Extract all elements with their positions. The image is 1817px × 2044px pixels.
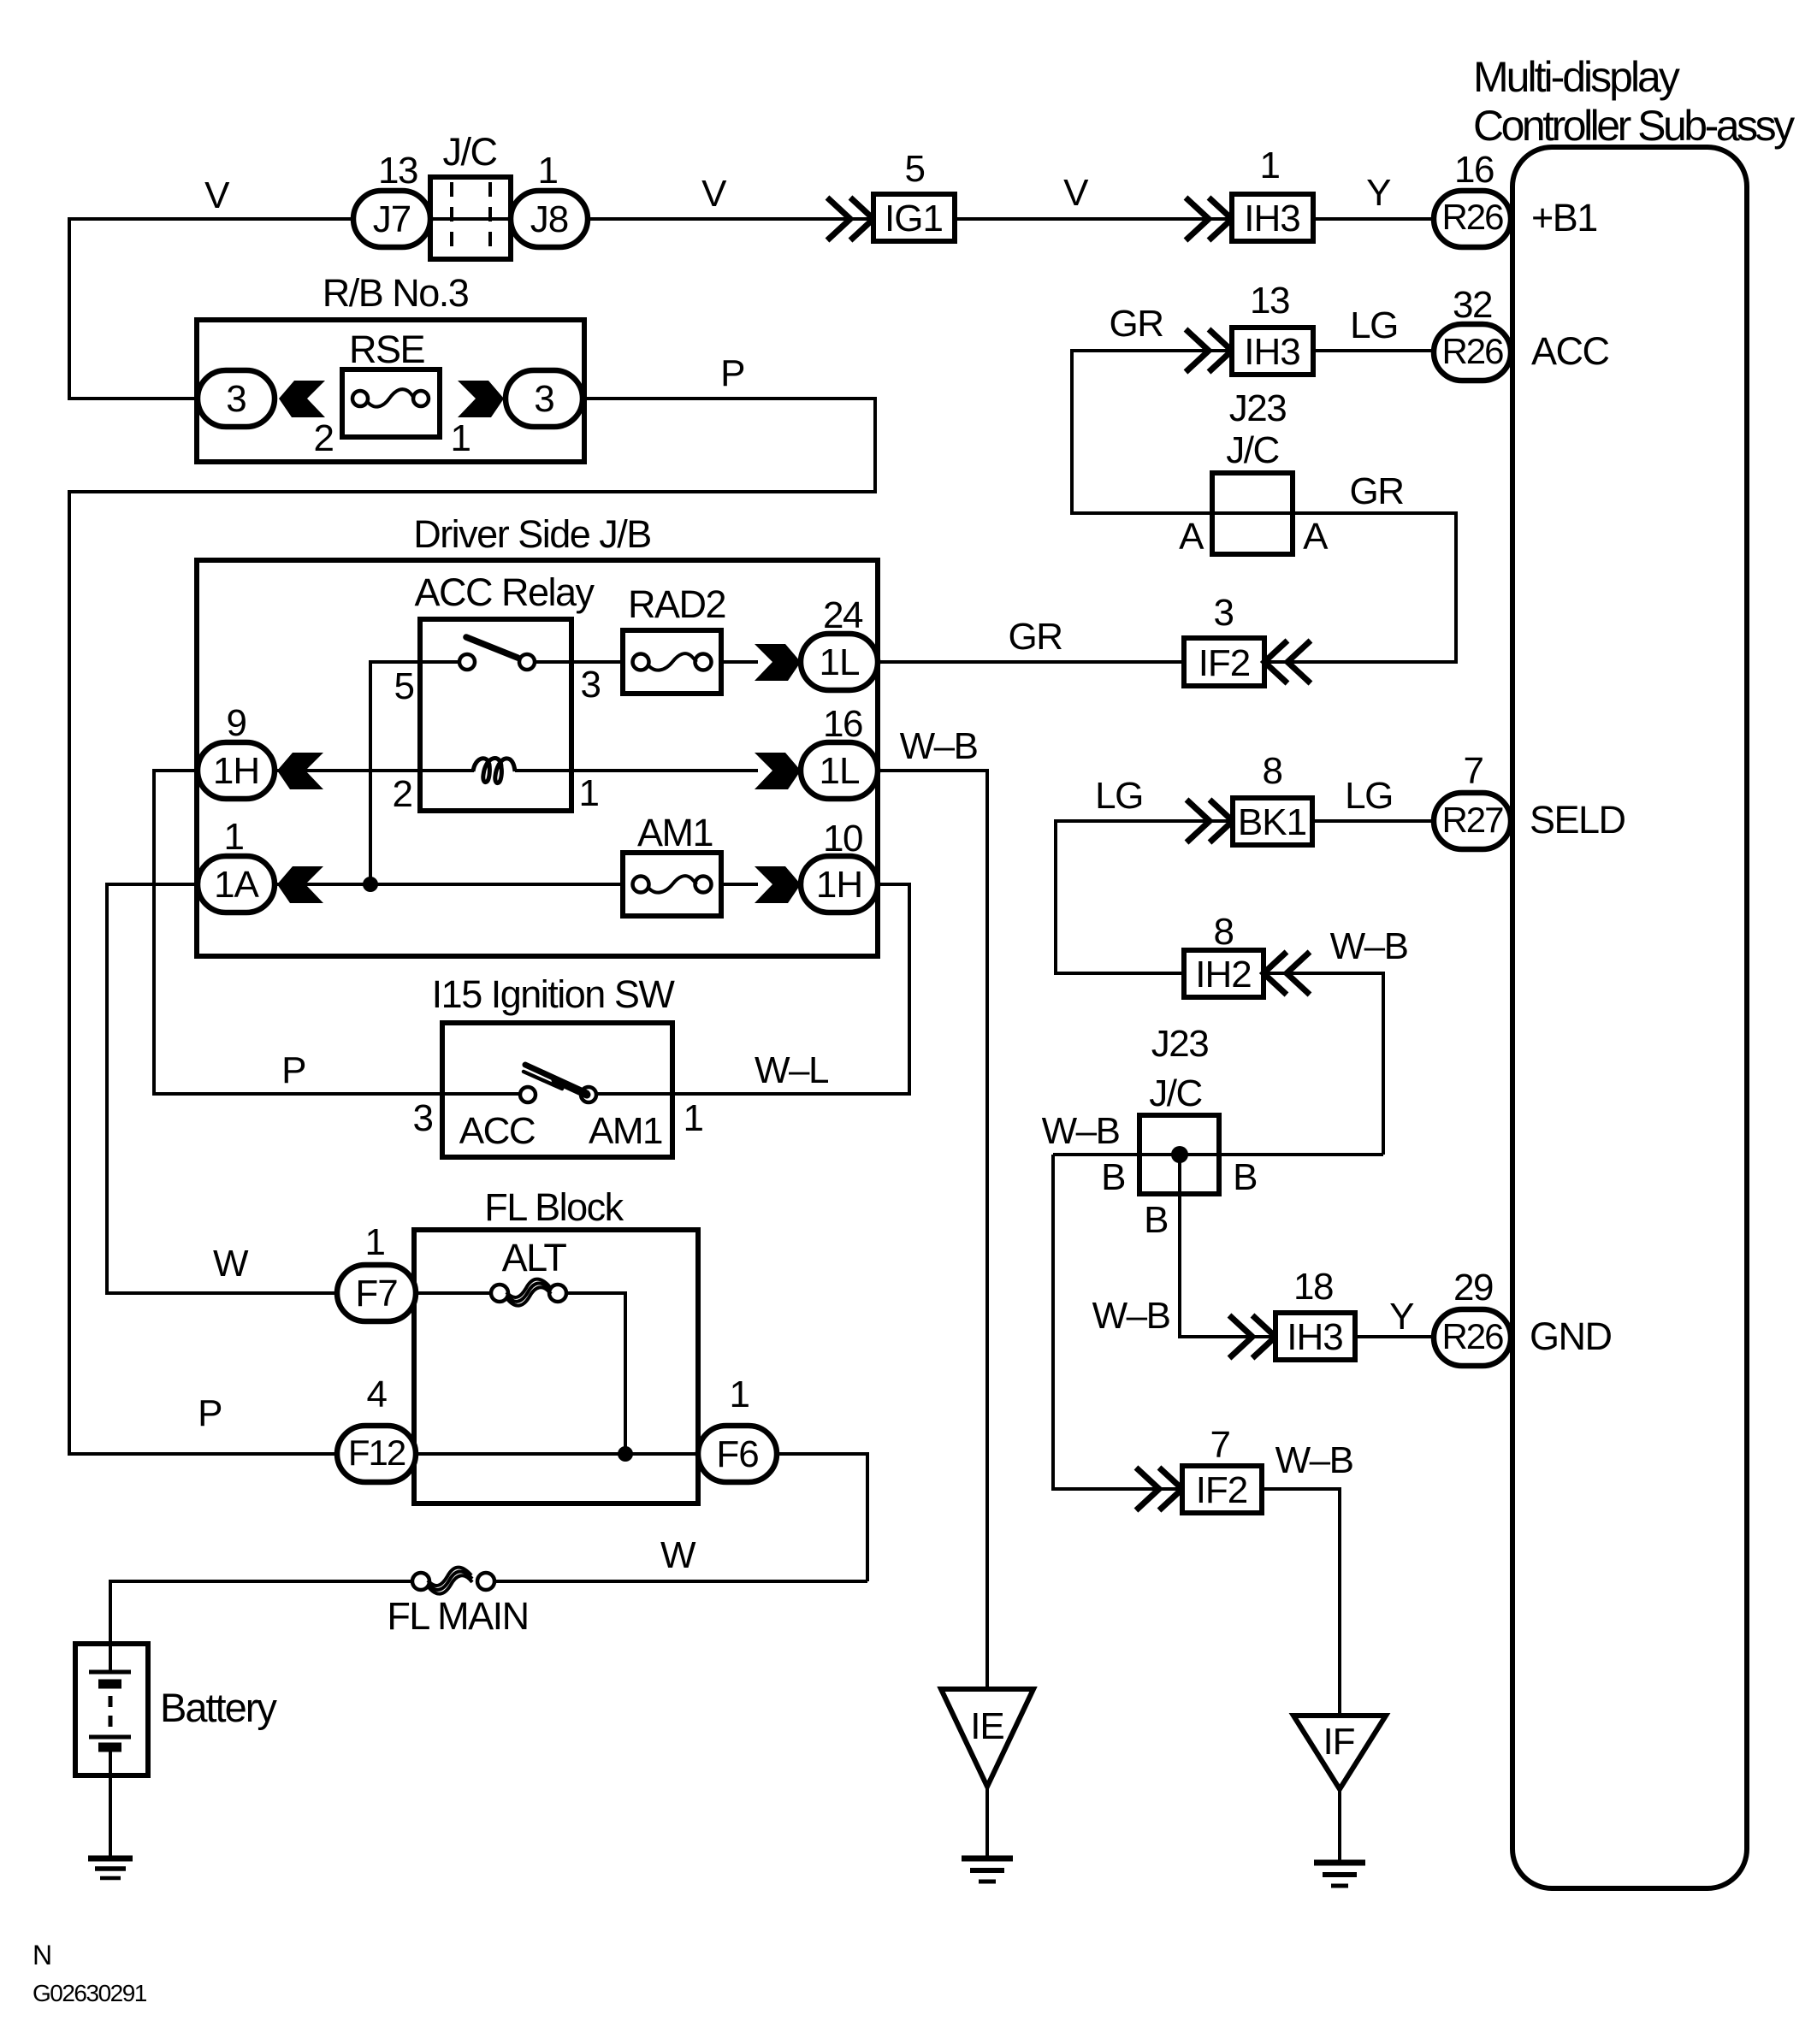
svg-text:29: 29 — [1453, 1267, 1493, 1309]
junction node on 1A row — [363, 877, 378, 892]
junction connector J23 J/C box (upper) — [1212, 473, 1293, 554]
svg-text:ACC Relay: ACC Relay — [414, 570, 595, 614]
wire IE triangle to ground — [985, 1787, 989, 1858]
junction connector J/C (top) — [430, 130, 511, 259]
connector pin R26 (ACC) — [1434, 324, 1511, 381]
ground (IE) — [962, 1858, 1013, 1882]
wire W-B: 1L(16) right and down to IE ground triangle — [878, 771, 987, 1689]
svg-text:G02630291: G02630291 — [33, 1980, 147, 2006]
svg-text:J/C: J/C — [1149, 1072, 1202, 1114]
svg-text:IH3: IH3 — [1287, 1316, 1342, 1358]
svg-text:AM1: AM1 — [589, 1110, 662, 1152]
svg-text:V: V — [701, 173, 727, 215]
svg-text:B: B — [1144, 1199, 1168, 1241]
svg-text:Y: Y — [1389, 1296, 1414, 1338]
svg-text:IG1: IG1 — [885, 198, 943, 239]
wire B: J/C junction dot down, right to IH3(18) chevrons — [1180, 1155, 1275, 1337]
connector BK1 — [1233, 798, 1312, 845]
R/B No.3 box — [197, 320, 584, 462]
connector IF2 (pin 7) — [1182, 1466, 1262, 1513]
connector pin F12 — [337, 1426, 416, 1482]
wire V net: RSE pin2 oval up and right to J7/J8 junction, on to IG1 chevrons — [69, 219, 873, 399]
svg-text:R26: R26 — [1441, 1316, 1503, 1356]
svg-text:32: 32 — [1453, 284, 1492, 326]
battery — [75, 1644, 148, 1775]
chevron arrows into IH3 pin 13 — [1186, 329, 1232, 372]
relay switch blade — [466, 637, 518, 658]
svg-text:GND: GND — [1530, 1314, 1612, 1358]
svg-text:ALT: ALT — [502, 1236, 567, 1279]
svg-text:BK1: BK1 — [1238, 801, 1306, 843]
svg-text:W–B: W–B — [1092, 1295, 1170, 1337]
svg-text:R26: R26 — [1441, 331, 1503, 371]
Multi-display Controller Sub-assy box U1 — [1512, 147, 1747, 1888]
svg-text:J23: J23 — [1229, 387, 1286, 429]
connector pin 3 (right) — [506, 370, 583, 427]
svg-text:4: 4 — [367, 1373, 388, 1415]
svg-text:W–B: W–B — [1330, 925, 1408, 967]
svg-text:W–L: W–L — [755, 1049, 829, 1091]
svg-text:IF2: IF2 — [1199, 642, 1251, 684]
svg-text:B: B — [1101, 1156, 1125, 1198]
ignition switch blade — [525, 1065, 587, 1093]
svg-text:8: 8 — [1263, 750, 1282, 792]
svg-text:1L: 1L — [820, 750, 860, 792]
svg-text:16: 16 — [823, 703, 862, 745]
ground (battery) — [88, 1858, 133, 1878]
svg-text:1: 1 — [224, 816, 244, 858]
chevron arrows into IF2 pin 3 — [1264, 641, 1311, 683]
arrow into 1H (10) — [755, 866, 801, 903]
fusible link ALT — [491, 1279, 566, 1306]
connector pin 1H (10) — [801, 856, 878, 913]
svg-text:Battery: Battery — [160, 1685, 277, 1730]
svg-text:ACC: ACC — [459, 1110, 536, 1152]
relay ACC box — [420, 619, 571, 811]
svg-text:1: 1 — [451, 417, 471, 459]
svg-text:P: P — [198, 1392, 222, 1434]
switch I15 box — [442, 1023, 672, 1157]
arrow into 1A (1) — [277, 866, 323, 903]
svg-text:A: A — [1303, 516, 1329, 558]
svg-text:13: 13 — [1250, 280, 1289, 322]
svg-text:18: 18 — [1293, 1266, 1333, 1308]
svg-text:+B1: +B1 — [1531, 196, 1597, 239]
svg-text:I15 Ignition SW: I15 Ignition SW — [432, 972, 676, 1016]
connector J8 — [511, 191, 588, 247]
svg-text:FL Block: FL Block — [484, 1185, 624, 1229]
relay switch contacts — [459, 637, 535, 670]
wire P net: RSE pin1 oval right, down, across, down left side to F12 — [69, 399, 875, 1454]
connector IG1 — [873, 194, 955, 241]
svg-text:IH3: IH3 — [1244, 331, 1299, 373]
wire relay coil row: 1H(9) to 1L(16) — [275, 769, 758, 772]
wire GR: 1L(24) to IF2(3) — [878, 660, 1184, 664]
svg-text:3: 3 — [1214, 592, 1234, 634]
svg-text:V: V — [1063, 172, 1089, 214]
svg-text:R26: R26 — [1441, 197, 1503, 237]
svg-text:J8: J8 — [530, 198, 568, 240]
svg-text:R/B No.3: R/B No.3 — [323, 271, 469, 315]
svg-text:2: 2 — [393, 773, 412, 815]
wire LG net: BK1 chevrons left, down to IH2 box — [1056, 821, 1233, 973]
svg-text:W–B: W–B — [1275, 1439, 1353, 1481]
svg-text:1: 1 — [1260, 145, 1280, 186]
svg-text:16: 16 — [1454, 149, 1494, 191]
svg-text:FL MAIN: FL MAIN — [387, 1594, 528, 1638]
svg-text:3: 3 — [581, 664, 601, 706]
svg-text:3: 3 — [413, 1097, 433, 1139]
wire Y: IH3 to R26 pin 16 — [1313, 217, 1434, 221]
svg-text:P: P — [720, 352, 744, 394]
svg-text:GR: GR — [1009, 616, 1062, 658]
wire battery to FL MAIN link — [110, 1581, 413, 1672]
svg-text:RSE: RSE — [349, 328, 425, 371]
connector IH2 — [1184, 950, 1264, 997]
svg-text:W: W — [213, 1243, 249, 1285]
wire IF triangle to ground — [1338, 1789, 1341, 1863]
svg-text:1L: 1L — [820, 641, 860, 683]
svg-text:Y: Y — [1366, 172, 1391, 214]
svg-text:F6: F6 — [716, 1433, 758, 1475]
wire V: IG1 to IH3 chevrons — [955, 217, 1232, 221]
wire W-B: J/C left, down to IF2(7) chevrons — [1053, 1155, 1182, 1489]
svg-text:J/C: J/C — [1226, 429, 1279, 471]
connector pin R27 (SELD) — [1434, 793, 1511, 849]
wire GR net: IH3(13) chevrons left, down, through J23 J/C, down to IF2(3) chevrons — [1072, 351, 1456, 662]
svg-text:SELD: SELD — [1530, 798, 1625, 842]
chevron arrows into IH3 pin 1 — [1186, 198, 1232, 240]
Driver Side J/B box — [197, 560, 878, 956]
svg-text:2: 2 — [314, 417, 334, 459]
connector IH3 (pin 18) — [1275, 1313, 1355, 1360]
svg-text:3: 3 — [534, 378, 553, 420]
arrow into 1L (16) — [755, 753, 801, 789]
svg-text:IH2: IH2 — [1195, 954, 1251, 995]
svg-text:1H: 1H — [213, 750, 259, 792]
svg-text:1H: 1H — [816, 864, 862, 906]
wire W net: F6 right, down to FL MAIN row — [777, 1454, 867, 1581]
wire W-B: IF2(7) right, down to IF ground triangle — [1262, 1489, 1340, 1716]
svg-text:1: 1 — [730, 1373, 749, 1415]
connector pin F7 — [337, 1265, 416, 1321]
Multi-display Controller Sub-assy title — [1473, 53, 1795, 150]
fuse RSE — [342, 369, 440, 437]
svg-text:3: 3 — [226, 378, 246, 420]
svg-text:P: P — [281, 1049, 305, 1091]
junction connector J23 J/C box (lower) — [1139, 1115, 1219, 1194]
svg-text:B: B — [1233, 1156, 1257, 1198]
wire F12 to F6 row — [416, 1452, 698, 1456]
wire ALT link right, down to F12-F6 row junction — [565, 1293, 625, 1454]
svg-text:W–B: W–B — [900, 725, 978, 767]
connector pin 3 (left) — [198, 370, 275, 427]
wire W-B: IH2 chevrons right, down to J23 J/C — [1264, 973, 1383, 1155]
connector IF2 (pin 3) — [1184, 638, 1264, 686]
relay coil — [473, 759, 515, 783]
connector pin F6 — [698, 1426, 777, 1482]
junction node on F12-F6 row — [618, 1446, 633, 1462]
svg-text:R27: R27 — [1441, 800, 1503, 840]
wire 1A row through AM1 fuse to 1H(10) — [275, 883, 758, 886]
svg-text:RAD2: RAD2 — [628, 582, 725, 626]
svg-text:Driver Side J/B: Driver Side J/B — [413, 512, 651, 556]
connector pin 1L (24) — [801, 634, 878, 690]
fuse RAD2 — [623, 630, 721, 694]
svg-text:W–B: W–B — [1042, 1110, 1120, 1152]
chevron arrows into IH3 pin 18 — [1229, 1315, 1275, 1358]
svg-text:10: 10 — [823, 818, 862, 860]
svg-text:LG: LG — [1350, 304, 1398, 346]
ground connector IF triangle — [1293, 1716, 1386, 1789]
connector J7 — [353, 191, 430, 247]
svg-text:IE: IE — [970, 1705, 1004, 1747]
wire F7 to ALT link — [416, 1291, 492, 1295]
svg-text:7: 7 — [1210, 1424, 1230, 1466]
svg-text:W: W — [660, 1534, 696, 1576]
chevron arrows into BK1 — [1187, 800, 1233, 842]
svg-text:13: 13 — [378, 150, 417, 192]
junction node in J/C — [1171, 1146, 1188, 1163]
wire LG: BK1 to R27 pin 7 — [1312, 819, 1434, 823]
svg-text:J/C: J/C — [443, 130, 497, 174]
fusible link FL MAIN — [412, 1568, 494, 1594]
svg-text:V: V — [204, 174, 230, 216]
wire W-B row through J23 J/C box — [1053, 1153, 1383, 1156]
svg-text:1: 1 — [684, 1097, 703, 1139]
connector pin 1A (1) — [198, 856, 275, 913]
svg-text:5: 5 — [394, 665, 414, 707]
svg-text:1A: 1A — [214, 864, 259, 906]
wire LG: IH3(13) to R26 pin 32 — [1313, 349, 1434, 352]
FL Block box — [414, 1230, 698, 1503]
svg-text:A: A — [1179, 516, 1204, 558]
svg-text:ACC: ACC — [1531, 329, 1609, 373]
svg-text:9: 9 — [227, 702, 246, 744]
connector IH3 (pin 1) — [1232, 194, 1313, 241]
connector pin R26 (+B1) — [1434, 191, 1511, 247]
svg-text:F7: F7 — [355, 1273, 397, 1314]
connector pin 1L (16) — [801, 742, 878, 799]
wire battery negative to ground — [109, 1751, 112, 1858]
wire P net: 1H(9) left, down to ignition SW ACC pin3 — [154, 771, 521, 1094]
svg-text:8: 8 — [1214, 911, 1234, 953]
svg-text:7: 7 — [1464, 750, 1483, 792]
arrow into 1L (24) — [755, 644, 801, 681]
ignition switch contacts — [520, 1065, 596, 1102]
svg-text:Multi-display: Multi-display — [1473, 53, 1680, 101]
svg-text:5: 5 — [905, 148, 925, 190]
svg-text:IF2: IF2 — [1196, 1469, 1248, 1511]
svg-text:J23: J23 — [1151, 1023, 1208, 1065]
wire W-L net: 1H(10) right, down, left to ignition SW AM1 pin1 — [596, 884, 909, 1094]
connector pin 1H (9) — [198, 742, 275, 799]
svg-text:IF: IF — [1323, 1721, 1354, 1763]
arrow into 1H (9) — [277, 753, 323, 789]
connector IH3 (pin 13) — [1232, 328, 1313, 375]
svg-text:24: 24 — [823, 594, 863, 636]
svg-text:LG: LG — [1345, 775, 1393, 817]
fuse AM1 — [623, 853, 721, 916]
svg-text:AM1: AM1 — [637, 811, 713, 854]
svg-text:LG: LG — [1095, 775, 1143, 817]
wire FL MAIN link to F6 drop — [494, 1580, 867, 1583]
svg-text:IH3: IH3 — [1244, 198, 1299, 239]
svg-text:GR: GR — [1350, 470, 1404, 512]
svg-text:1: 1 — [538, 150, 558, 192]
svg-text:1: 1 — [579, 772, 599, 814]
chevron arrows into IF2 pin 7 — [1136, 1468, 1182, 1510]
chevron arrows into IG1 — [827, 198, 873, 240]
svg-text:N: N — [33, 1940, 52, 1970]
svg-text:GR: GR — [1110, 303, 1163, 345]
wire relay switch pin3 through RAD2 to 1L(24) — [535, 660, 758, 664]
arrow into pin 3 left — [279, 381, 325, 417]
chevron arrows into IH2 — [1264, 952, 1310, 995]
svg-text:Controller Sub-assy: Controller Sub-assy — [1473, 102, 1795, 150]
svg-text:1: 1 — [365, 1221, 385, 1263]
connector pin R26 (GND) — [1434, 1309, 1511, 1366]
ground (IF) — [1314, 1863, 1365, 1886]
svg-text:F12: F12 — [348, 1433, 405, 1473]
wire W net: 1A(1) left, down to F7 — [107, 884, 337, 1293]
svg-text:J7: J7 — [373, 198, 411, 240]
wire ACC relay pin5 to junction on 1A row — [370, 662, 459, 884]
arrow into pin 3 right — [458, 381, 504, 417]
ground connector IE triangle — [941, 1689, 1033, 1787]
wire Y: IH3(18) to R26 pin 29 — [1355, 1335, 1434, 1338]
